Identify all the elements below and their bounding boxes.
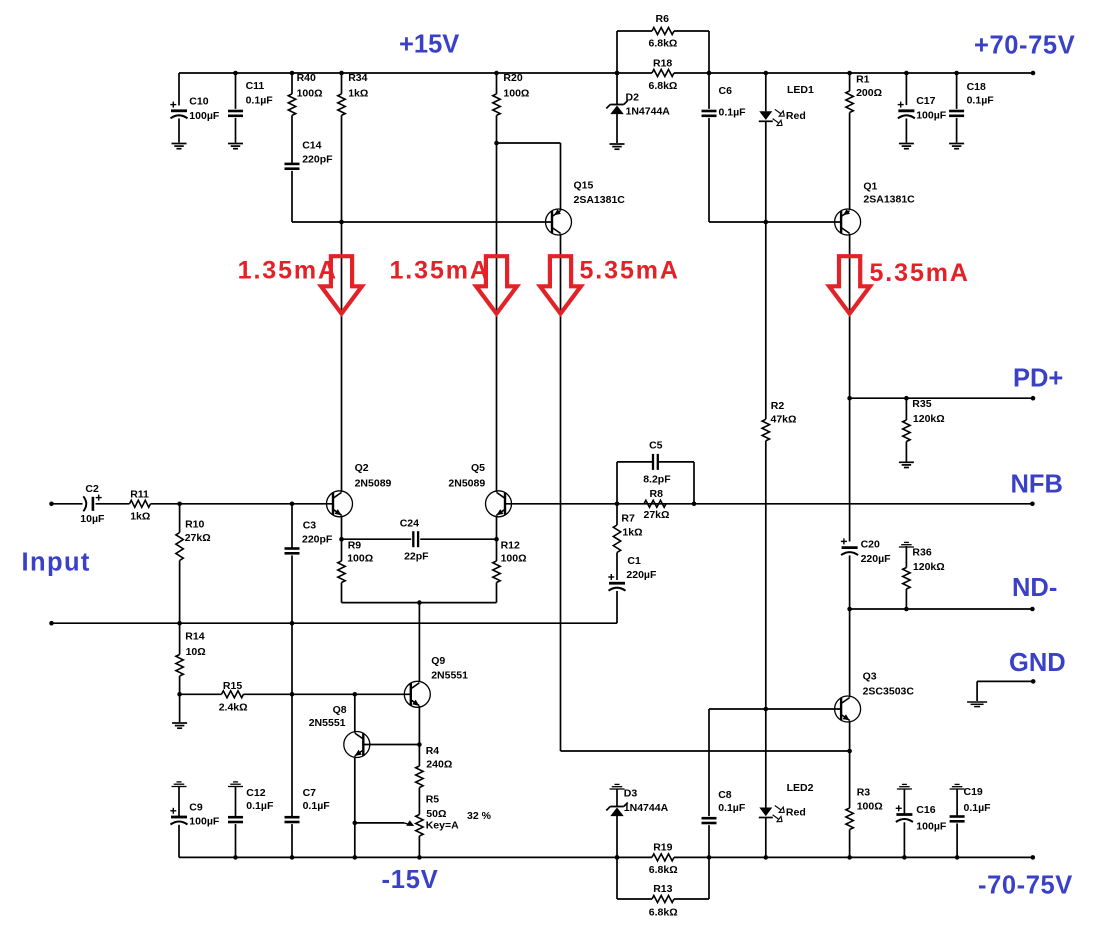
ground (below C18) bbox=[949, 144, 964, 149]
svg-text:R8: R8 bbox=[650, 488, 664, 500]
wire +15V/+70-75V top rail (left segment) bbox=[179, 72, 617, 74]
svg-text:0.1µF: 0.1µF bbox=[718, 802, 746, 814]
svg-text:100Ω: 100Ω bbox=[857, 801, 883, 813]
svg-text:100Ω: 100Ω bbox=[297, 87, 323, 99]
svg-text:C14: C14 bbox=[302, 140, 321, 152]
resistor R40 100 bbox=[288, 71, 322, 163]
svg-text:Q1: Q1 bbox=[863, 181, 877, 193]
svg-text:Q2: Q2 bbox=[355, 462, 369, 474]
svg-text:0.1µF: 0.1µF bbox=[967, 95, 995, 107]
node C16 rail junction bbox=[902, 855, 907, 860]
svg-text:100Ω: 100Ω bbox=[347, 553, 373, 565]
capacitor C20 220uF bbox=[841, 538, 891, 609]
wire top rail (right segment) bbox=[709, 72, 1033, 74]
resistor R9 100 bbox=[338, 539, 373, 602]
svg-text:2N5089: 2N5089 bbox=[448, 477, 485, 489]
wire Q9 emitter bbox=[418, 706, 420, 745]
node R36 bottom junction bbox=[904, 607, 909, 612]
svg-text:240Ω: 240Ω bbox=[426, 758, 452, 770]
wire Q8 collector bbox=[354, 694, 356, 733]
svg-text:LED1: LED1 bbox=[787, 84, 814, 96]
node C3 top junction bbox=[290, 502, 295, 507]
capacitor C3 220pF bbox=[285, 504, 333, 623]
resistor R7 1k bbox=[613, 504, 642, 580]
label -15V bbox=[382, 866, 439, 894]
svg-text:C18: C18 bbox=[967, 81, 986, 93]
svg-text:0.1µF: 0.1µF bbox=[303, 800, 331, 812]
capacitor C12 0.1uF bbox=[228, 787, 274, 858]
node R15 left junction bbox=[177, 692, 182, 697]
node R10 top junction bbox=[177, 502, 182, 507]
svg-text:220µF: 220µF bbox=[861, 553, 892, 565]
wire R11 to Q2 base bbox=[151, 503, 333, 505]
wire bottom rail (right segment) bbox=[709, 856, 1033, 858]
resistor R15 2.4k bbox=[180, 680, 411, 714]
svg-text:D2: D2 bbox=[626, 92, 640, 104]
svg-text:C12: C12 bbox=[246, 787, 265, 799]
svg-text:R20: R20 bbox=[503, 72, 522, 84]
capacitor C6 0.1uF bbox=[702, 71, 747, 222]
svg-text:R40: R40 bbox=[297, 72, 316, 84]
label NFB bbox=[1011, 471, 1063, 499]
node LED2 rail junction bbox=[764, 855, 769, 860]
svg-text:R18: R18 bbox=[653, 58, 672, 70]
node C3 bottom junction bbox=[290, 621, 295, 626]
capacitor C9 100uF bbox=[170, 787, 220, 858]
potentiometer wiper arrow bbox=[355, 820, 414, 826]
svg-text:+15V: +15V bbox=[399, 31, 459, 59]
svg-text:0.1µF: 0.1µF bbox=[246, 95, 274, 107]
svg-text:2.4kΩ: 2.4kΩ bbox=[219, 702, 248, 714]
svg-text:27kΩ: 27kΩ bbox=[185, 532, 211, 544]
node R3 rail junction bbox=[847, 855, 852, 860]
svg-text:22pF: 22pF bbox=[404, 551, 429, 563]
wire Q15 base net bbox=[292, 221, 552, 223]
svg-text:100µF: 100µF bbox=[916, 821, 947, 833]
capacitor C10 100uF bbox=[170, 73, 220, 143]
svg-text:5.35mA: 5.35mA bbox=[580, 256, 680, 284]
svg-text:10µF: 10µF bbox=[80, 513, 105, 525]
svg-text:D3: D3 bbox=[624, 787, 638, 799]
capacitor C8 0.1uF bbox=[702, 709, 746, 857]
svg-text:Red: Red bbox=[786, 110, 806, 122]
resistor R34 1k bbox=[338, 71, 369, 222]
potentiometer R5 50 Key=A bbox=[416, 793, 459, 857]
ground (above D3) bbox=[610, 784, 625, 789]
node C7 top junction bbox=[290, 692, 295, 697]
svg-text:50Ω: 50Ω bbox=[426, 808, 446, 820]
svg-text:-70-75V: -70-75V bbox=[978, 872, 1073, 900]
resistor R20 100 bbox=[493, 71, 530, 143]
svg-text:27kΩ: 27kΩ bbox=[644, 509, 670, 521]
svg-text:C3: C3 bbox=[303, 520, 317, 532]
svg-text:1kΩ: 1kΩ bbox=[348, 87, 368, 99]
resistor R35 120k bbox=[903, 398, 945, 462]
svg-text:220µF: 220µF bbox=[626, 569, 657, 581]
transistor Q9 2N5551 bbox=[404, 655, 468, 707]
ground (above C16) bbox=[897, 784, 912, 789]
svg-text:R15: R15 bbox=[223, 680, 242, 692]
node tail junction bbox=[417, 600, 422, 605]
node C5 right junction bbox=[692, 502, 697, 507]
svg-text:R34: R34 bbox=[348, 72, 367, 84]
svg-text:0.1µF: 0.1µF bbox=[719, 107, 747, 119]
svg-text:C10: C10 bbox=[189, 96, 208, 108]
svg-text:2SA1381C: 2SA1381C bbox=[863, 194, 915, 206]
wire Q8 emitter to rail bbox=[354, 823, 356, 858]
svg-text:PD+: PD+ bbox=[1013, 365, 1063, 393]
wire R34 to Q2 collector bbox=[341, 222, 343, 492]
resistor R4 240 bbox=[416, 745, 453, 815]
svg-text:R4: R4 bbox=[426, 745, 440, 757]
capacitor C17 100uF bbox=[898, 71, 947, 143]
label +15V bbox=[399, 31, 459, 59]
capacitor C7 0.1uF bbox=[285, 694, 331, 857]
node R14 top junction bbox=[177, 621, 182, 626]
svg-text:R7: R7 bbox=[621, 512, 635, 524]
ground (above C19) bbox=[950, 784, 965, 789]
wire Q8 base bbox=[364, 744, 420, 746]
svg-text:6.8kΩ: 6.8kΩ bbox=[649, 907, 678, 919]
node NFB terminal bbox=[1030, 502, 1035, 507]
label ND- bbox=[1012, 574, 1057, 602]
svg-text:100µF: 100µF bbox=[189, 816, 220, 828]
svg-text:1N4744A: 1N4744A bbox=[626, 105, 671, 117]
node Q8 rail junction bbox=[353, 855, 358, 860]
svg-text:100µF: 100µF bbox=[916, 110, 947, 122]
svg-text:2SC3503C: 2SC3503C bbox=[863, 686, 915, 698]
svg-text:1.35mA: 1.35mA bbox=[238, 256, 338, 284]
wire emitter-resistor bottoms bbox=[342, 602, 497, 604]
transistor Q15 2SA1381C bbox=[546, 180, 626, 236]
label Input bbox=[22, 549, 91, 577]
transistor Q3 2SC3503C bbox=[835, 671, 915, 722]
wire -15V/-70-75V bottom rail (left segment) bbox=[179, 856, 617, 858]
svg-text:Q3: Q3 bbox=[863, 671, 877, 683]
svg-text:47kΩ: 47kΩ bbox=[771, 414, 797, 426]
svg-text:R35: R35 bbox=[912, 398, 931, 410]
svg-text:Q15: Q15 bbox=[574, 180, 594, 192]
svg-text:0.1µF: 0.1µF bbox=[964, 802, 992, 814]
svg-text:5.35mA: 5.35mA bbox=[870, 259, 970, 287]
svg-text:C9: C9 bbox=[189, 802, 203, 814]
svg-text:C5: C5 bbox=[649, 440, 663, 452]
resistor R1 200 bbox=[846, 71, 882, 210]
node R20/Q15-emitter junction bbox=[494, 141, 499, 146]
resistor R11 1k bbox=[130, 488, 151, 522]
resistor R12 100 bbox=[493, 539, 527, 602]
node Input terminal (upper) bbox=[49, 502, 54, 507]
svg-text:R14: R14 bbox=[185, 631, 204, 643]
svg-text:Input: Input bbox=[22, 549, 91, 577]
resistor R2 47k bbox=[762, 222, 796, 709]
wire Q3 base net bbox=[709, 708, 841, 710]
ground (below R14) bbox=[172, 723, 187, 728]
resistor R18 (in series on top rail) bbox=[617, 58, 709, 92]
capacitor C5 8.2pF (bridge) bbox=[617, 440, 694, 504]
resistor R3 100 bbox=[846, 751, 883, 857]
zener diode D2 1N4744A bbox=[606, 71, 670, 143]
wire ND- net bbox=[850, 608, 1033, 610]
svg-text:C19: C19 bbox=[964, 786, 983, 798]
ground (below C11) bbox=[228, 144, 243, 149]
svg-text:R12: R12 bbox=[501, 539, 520, 551]
svg-text:C16: C16 bbox=[916, 804, 935, 816]
ground (above R36) bbox=[899, 542, 914, 547]
resistor R13 6.8k (bridge under R19) bbox=[615, 855, 712, 918]
ground (below C10) bbox=[172, 144, 187, 149]
svg-text:10Ω: 10Ω bbox=[186, 646, 206, 658]
svg-text:32 %: 32 % bbox=[467, 810, 492, 822]
LED LED1 Red bbox=[759, 71, 814, 222]
node C14/R34/Q15-base junction bbox=[339, 220, 344, 225]
wire PD+ net bbox=[850, 397, 1033, 399]
svg-text:C17: C17 bbox=[916, 95, 935, 107]
node R35 top junction bbox=[904, 396, 909, 401]
node Q2 emitter junction bbox=[339, 537, 344, 542]
node LED1/R2/Q1-base junction bbox=[764, 220, 769, 225]
svg-text:200Ω: 200Ω bbox=[856, 87, 882, 99]
wire Q5 emitter bbox=[496, 516, 498, 540]
current arrow 5.35mA (Q15 collector) bbox=[540, 256, 680, 313]
transistor Q1 2SA1381C bbox=[835, 181, 916, 235]
wire Q1 collector down bbox=[849, 234, 851, 542]
svg-text:100Ω: 100Ω bbox=[501, 553, 527, 565]
svg-text:2SA1381C: 2SA1381C bbox=[574, 194, 626, 206]
svg-text:Q9: Q9 bbox=[431, 655, 445, 667]
svg-text:2N5551: 2N5551 bbox=[431, 670, 468, 682]
svg-text:C1: C1 bbox=[627, 555, 641, 567]
capacitor C18 0.1uF bbox=[949, 71, 994, 143]
node C7 rail junction bbox=[290, 855, 295, 860]
svg-text:R2: R2 bbox=[771, 400, 785, 412]
node D3 rail junction bbox=[615, 855, 620, 860]
label +70-75V bbox=[974, 32, 1075, 60]
svg-text:2N5551: 2N5551 bbox=[309, 717, 346, 729]
svg-text:C7: C7 bbox=[303, 787, 317, 799]
current arrow 1.35mA (Q5 collector) bbox=[390, 256, 517, 313]
capacitor C11 0.1uF bbox=[228, 71, 273, 143]
node ND- left junction bbox=[847, 607, 852, 612]
zener diode D3 1N4744A bbox=[606, 787, 668, 857]
resistor R8 27k (on NFB line) bbox=[644, 488, 670, 521]
svg-text:ND-: ND- bbox=[1012, 574, 1057, 602]
node Q8 emitter/wiper junction bbox=[353, 821, 358, 826]
capacitor C19 0.1uF bbox=[950, 786, 992, 857]
svg-text:R1: R1 bbox=[856, 74, 870, 86]
capacitor C24 22pF bbox=[342, 518, 497, 563]
svg-text:Key=A: Key=A bbox=[426, 820, 459, 832]
svg-text:C2: C2 bbox=[85, 483, 99, 495]
wire input to C2 bbox=[52, 503, 83, 505]
node R7/C5 left junction bbox=[615, 502, 620, 507]
node Q3 emitter/VAS junction bbox=[847, 749, 852, 754]
resistor R19 6.8k (in series on bottom rail) bbox=[617, 842, 709, 877]
ground (below D2) bbox=[610, 144, 625, 149]
svg-text:1N4744A: 1N4744A bbox=[624, 802, 669, 814]
svg-text:C24: C24 bbox=[400, 518, 419, 530]
transistor Q8 2N5551 bbox=[309, 704, 370, 758]
wire NFB net bbox=[506, 503, 1033, 505]
LED LED2 Red bbox=[759, 709, 814, 857]
svg-text:R9: R9 bbox=[348, 539, 362, 551]
current arrow 5.35mA (Q1 collector) bbox=[829, 256, 970, 313]
wire C2 to R11 bbox=[96, 503, 130, 505]
resistor R14 10 bbox=[176, 623, 206, 722]
wire GND terminal bbox=[977, 681, 1033, 701]
svg-text:220pF: 220pF bbox=[302, 154, 333, 166]
resistor R10 27k bbox=[176, 504, 211, 623]
capacitor C14 220pF bbox=[285, 140, 334, 223]
capacitor C1 220uF bbox=[608, 555, 657, 623]
svg-text:120kΩ: 120kΩ bbox=[913, 561, 945, 573]
svg-text:0.1µF: 0.1µF bbox=[246, 800, 274, 812]
label GND bbox=[1009, 649, 1066, 677]
svg-text:GND: GND bbox=[1009, 649, 1066, 677]
node R5 rail junction bbox=[417, 855, 422, 860]
ground (below R35) bbox=[899, 462, 914, 467]
svg-text:C8: C8 bbox=[718, 789, 732, 801]
node PD+ terminal bbox=[1031, 396, 1036, 401]
node GND terminal bbox=[1031, 679, 1036, 684]
wire C6 to Q1 base bbox=[709, 221, 841, 223]
wire Q3 collector bbox=[849, 609, 851, 697]
capacitor C2 10uF bbox=[80, 483, 105, 525]
ground (below C17) bbox=[899, 144, 914, 149]
svg-text:R3: R3 bbox=[857, 786, 871, 798]
svg-text:NFB: NFB bbox=[1011, 471, 1063, 499]
svg-text:Q5: Q5 bbox=[471, 462, 485, 474]
svg-text:6.8kΩ: 6.8kΩ bbox=[649, 80, 678, 92]
transistor Q2 2N5089 bbox=[327, 462, 392, 517]
svg-text:Q8: Q8 bbox=[333, 704, 347, 716]
node LED2/R2/Q3-base junction bbox=[764, 707, 769, 712]
wire Q15 collector to VAS node bbox=[561, 234, 850, 751]
wire Q2 emitter bbox=[341, 516, 343, 540]
ground (GND terminal) bbox=[967, 702, 987, 707]
svg-text:1kΩ: 1kΩ bbox=[622, 527, 642, 539]
node C12 rail junction bbox=[233, 855, 238, 860]
label -70-75V bbox=[978, 872, 1073, 900]
resistor R36 120k bbox=[903, 546, 945, 609]
wire R20 to Q5 collector bbox=[496, 143, 498, 492]
svg-text:R5: R5 bbox=[426, 793, 440, 805]
svg-text:C11: C11 bbox=[246, 80, 265, 92]
svg-text:1kΩ: 1kΩ bbox=[130, 511, 150, 523]
svg-text:100Ω: 100Ω bbox=[503, 87, 529, 99]
ground (above C12) bbox=[228, 782, 243, 787]
transistor Q5 2N5089 bbox=[448, 462, 511, 517]
svg-text:100µF: 100µF bbox=[189, 110, 220, 122]
wire Q3 emitter bbox=[849, 721, 851, 751]
node Q8 base junction bbox=[417, 742, 422, 747]
svg-text:R19: R19 bbox=[653, 842, 672, 854]
resistor R6 6.8k (bridge over R18) bbox=[615, 13, 712, 75]
svg-text:R13: R13 bbox=[653, 883, 672, 895]
svg-text:6.8kΩ: 6.8kΩ bbox=[649, 37, 678, 49]
svg-text:R11: R11 bbox=[130, 488, 149, 500]
node Q5 emitter junction bbox=[494, 537, 499, 542]
node PD+ left junction bbox=[847, 396, 852, 401]
wire tail to Q9 collector bbox=[418, 603, 420, 683]
wire Q15 emitter feed bbox=[497, 143, 561, 211]
current arrow 1.35mA (Q2 collector) bbox=[238, 256, 362, 313]
node top rail right terminal bbox=[1031, 71, 1036, 76]
wire input return bbox=[52, 622, 618, 624]
label PD+ bbox=[1013, 365, 1063, 393]
capacitor C16 100uF bbox=[896, 789, 947, 857]
svg-text:+70-75V: +70-75V bbox=[974, 32, 1075, 60]
svg-text:6.8kΩ: 6.8kΩ bbox=[649, 864, 678, 876]
svg-text:120kΩ: 120kΩ bbox=[913, 413, 945, 425]
svg-text:Red: Red bbox=[786, 807, 806, 819]
wire C3-C7 link bbox=[291, 623, 293, 694]
node Q8 collector junction bbox=[353, 692, 358, 697]
label 32 % bbox=[467, 810, 492, 822]
node Input terminal (lower) bbox=[49, 621, 54, 626]
svg-text:8.2pF: 8.2pF bbox=[643, 473, 671, 485]
svg-text:R10: R10 bbox=[185, 518, 204, 530]
svg-text:220pF: 220pF bbox=[302, 534, 333, 546]
svg-text:R36: R36 bbox=[912, 546, 931, 558]
svg-text:LED2: LED2 bbox=[787, 782, 814, 794]
svg-text:1.35mA: 1.35mA bbox=[390, 256, 490, 284]
node C19 rail junction bbox=[955, 855, 960, 860]
wire Q8 emitter bbox=[354, 756, 356, 823]
svg-text:-15V: -15V bbox=[382, 866, 439, 894]
svg-text:R6: R6 bbox=[656, 13, 670, 25]
svg-text:2N5089: 2N5089 bbox=[355, 477, 392, 489]
svg-text:C6: C6 bbox=[719, 85, 733, 97]
node ND- terminal bbox=[1030, 607, 1035, 612]
ground (above C9) bbox=[172, 782, 187, 787]
svg-text:C20: C20 bbox=[861, 538, 880, 550]
node bottom rail right terminal bbox=[1031, 855, 1036, 860]
